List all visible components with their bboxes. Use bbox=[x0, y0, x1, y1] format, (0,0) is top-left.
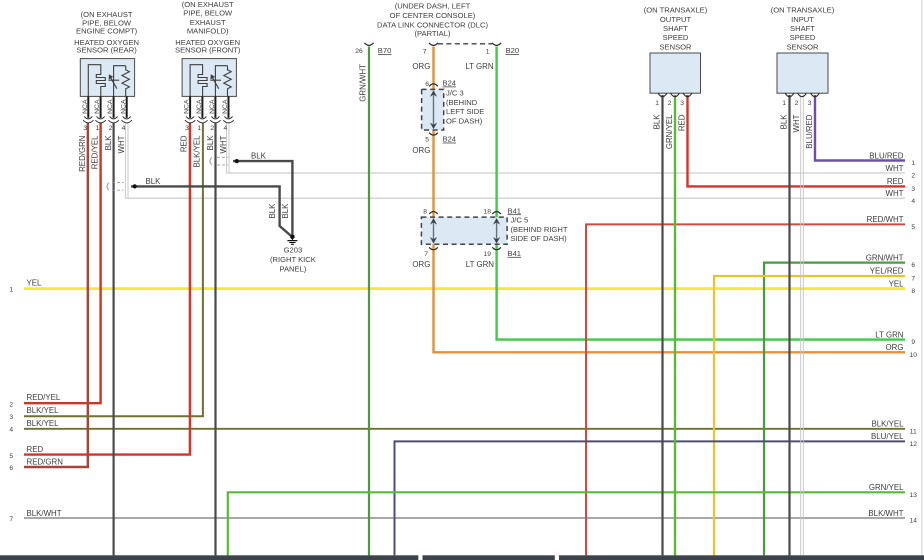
svg-text:RED: RED bbox=[27, 445, 44, 454]
svg-text:6: 6 bbox=[425, 81, 429, 88]
svg-text:WHT: WHT bbox=[117, 135, 126, 153]
component input shaft speed sensor box bbox=[777, 53, 828, 93]
svg-text:WHT: WHT bbox=[219, 135, 228, 153]
wire GRN/WHT row R6 bbox=[764, 263, 905, 556]
svg-text:DATA LINK CONNECTOR (DLC): DATA LINK CONNECTOR (DLC) bbox=[377, 20, 488, 29]
svg-text:WHT: WHT bbox=[792, 114, 801, 132]
svg-text:BLK/YEL: BLK/YEL bbox=[27, 406, 60, 415]
svg-text:7: 7 bbox=[911, 276, 915, 283]
svg-text:6: 6 bbox=[9, 465, 13, 472]
svg-text:B24: B24 bbox=[443, 79, 457, 88]
svg-text:2: 2 bbox=[210, 125, 214, 132]
svg-text:WHT: WHT bbox=[886, 164, 904, 173]
svg-text:BLK/YEL: BLK/YEL bbox=[27, 419, 60, 428]
svg-text:1: 1 bbox=[96, 125, 100, 132]
svg-text:BLU/YEL: BLU/YEL bbox=[871, 432, 904, 441]
svg-text:(BEHIND RIGHT: (BEHIND RIGHT bbox=[511, 225, 568, 234]
svg-text:3: 3 bbox=[9, 414, 13, 421]
svg-text:SENSOR: SENSOR bbox=[659, 42, 692, 51]
svg-text:B24: B24 bbox=[443, 135, 457, 144]
svg-text:BLK: BLK bbox=[146, 177, 162, 186]
svg-text:YEL: YEL bbox=[27, 279, 43, 288]
pin stubs bbox=[88, 96, 126, 118]
svg-text:4: 4 bbox=[911, 198, 915, 205]
svg-text:9: 9 bbox=[911, 339, 915, 346]
svg-text:(PARTIAL): (PARTIAL) bbox=[414, 29, 450, 38]
output sensor wire labels bbox=[653, 114, 687, 149]
svg-text:ORG: ORG bbox=[412, 62, 430, 71]
junction dot front BLK branch bbox=[235, 159, 239, 163]
label heated oxygen sensor (front) title bbox=[175, 0, 241, 55]
svg-text:LT GRN: LT GRN bbox=[875, 330, 904, 339]
DLC pin 26 arc bbox=[364, 43, 373, 46]
variable arrow head bbox=[109, 74, 114, 79]
svg-text:LT GRN: LT GRN bbox=[465, 62, 494, 71]
svg-text:NCA: NCA bbox=[222, 99, 229, 114]
svg-text:YEL: YEL bbox=[889, 279, 905, 288]
wire BLK branch from rear sensor pin2 to ground bbox=[131, 186, 291, 235]
svg-text:LEFT SIDE: LEFT SIDE bbox=[446, 107, 484, 116]
svg-text:BLK: BLK bbox=[780, 114, 789, 130]
svg-text:2: 2 bbox=[911, 173, 915, 180]
svg-text:ORG: ORG bbox=[412, 260, 430, 269]
svg-text:NCA: NCA bbox=[184, 99, 191, 114]
numbers right wire rows 1-14 bbox=[909, 160, 917, 524]
input sensor wire labels bbox=[780, 114, 815, 149]
component output shaft speed sensor box bbox=[650, 53, 701, 93]
junction connector J/C3 box bbox=[422, 89, 444, 130]
svg-text:SENSOR: SENSOR bbox=[786, 42, 819, 51]
svg-text:7: 7 bbox=[424, 251, 428, 258]
wire RED output sensor pin3 to row R3 bbox=[688, 95, 906, 186]
svg-text:PANEL): PANEL) bbox=[279, 264, 306, 273]
J/C5 left arrow bbox=[433, 222, 435, 241]
svg-text:(ON TRANSAXLE): (ON TRANSAXLE) bbox=[771, 6, 835, 15]
svg-text:RED/YEL: RED/YEL bbox=[27, 393, 61, 402]
junction connector J/C5 box bbox=[421, 217, 507, 244]
wire BLK branch from front sensor pin2 to ground bbox=[233, 161, 292, 234]
component heated oxygen sensor (front) box bbox=[182, 59, 236, 123]
wire RED/GRN rear pin3 to row L6 bbox=[24, 123, 88, 468]
svg-text:(BEHIND: (BEHIND bbox=[446, 98, 478, 107]
svg-text:RED/YEL: RED/YEL bbox=[91, 135, 100, 169]
svg-text:3: 3 bbox=[185, 125, 189, 132]
svg-text:BLK: BLK bbox=[268, 203, 277, 219]
svg-text:BLK: BLK bbox=[281, 203, 290, 219]
svg-text:14: 14 bbox=[909, 518, 917, 525]
svg-text:RED/GRN: RED/GRN bbox=[27, 458, 64, 467]
wire color labels front sensor bbox=[180, 135, 228, 168]
svg-text:GRN/YEL: GRN/YEL bbox=[665, 114, 674, 149]
svg-text:OUTPUT: OUTPUT bbox=[660, 15, 692, 24]
J/C5 pin 7 arc bbox=[429, 247, 438, 249]
wire ORG from DLC pin7 through J/C3 and J/C5 to row R10 bbox=[434, 47, 906, 353]
svg-text:2: 2 bbox=[9, 401, 13, 408]
wire GRN/YEL output sensor pin2 vertical bbox=[674, 95, 676, 555]
svg-text:7: 7 bbox=[423, 48, 427, 55]
wire GRN/WHT from DLC pin26 vertical bbox=[368, 47, 370, 556]
wire GRN/YEL row R13 bbox=[228, 492, 905, 555]
page right border bbox=[921, 0, 923, 560]
svg-text:SHAFT: SHAFT bbox=[790, 24, 815, 33]
wire LT GRN from DLC pin1 through J/C5 to row R9 bbox=[497, 47, 905, 340]
svg-text:2: 2 bbox=[795, 100, 799, 107]
wire RED/YEL rear pin1 to row L2 bbox=[24, 123, 101, 404]
variable cell bar bbox=[108, 79, 119, 81]
wire RED front pin3 to row L5 bbox=[24, 123, 190, 455]
svg-text:4: 4 bbox=[9, 427, 13, 434]
junction dot rear BLK branch bbox=[133, 184, 137, 188]
svg-text:BLK/YEL: BLK/YEL bbox=[193, 135, 202, 168]
ground G203 symbol bbox=[287, 235, 297, 245]
svg-text:10: 10 bbox=[909, 352, 917, 359]
svg-text:J/C 5: J/C 5 bbox=[511, 215, 529, 224]
pin numbers front sensor 3 1 2 4 bbox=[185, 125, 227, 132]
connector arcs bbox=[83, 116, 132, 122]
wire BLK/YEL front pin1 to row L3 bbox=[24, 123, 203, 417]
svg-text:26: 26 bbox=[355, 48, 363, 55]
labels NCA front sensor bbox=[184, 99, 229, 114]
svg-text:SPEED: SPEED bbox=[663, 33, 689, 42]
wire WHT row R2 from front sensor pin4 bbox=[226, 123, 229, 174]
svg-text:4: 4 bbox=[223, 125, 227, 132]
label heated oxygen sensor (rear) title bbox=[74, 10, 139, 55]
wire YEL/RED row R7 bbox=[714, 276, 905, 555]
wire BLK/WHT row L7/R14 bbox=[24, 517, 905, 519]
svg-text:BLK: BLK bbox=[206, 135, 215, 151]
svg-text:1: 1 bbox=[486, 48, 490, 55]
svg-text:7: 7 bbox=[9, 516, 13, 523]
svg-text:B70: B70 bbox=[378, 46, 392, 55]
wire BLK input sensor pin1 vertical bbox=[788, 95, 790, 555]
svg-text:RED/WHT: RED/WHT bbox=[867, 215, 904, 224]
svg-text:ENGINE COMPT): ENGINE COMPT) bbox=[76, 27, 138, 36]
svg-text:SHAFT: SHAFT bbox=[663, 24, 688, 33]
wire WHT row R4 from rear sensor pin4 bbox=[125, 123, 128, 199]
svg-text:8: 8 bbox=[911, 288, 915, 295]
DLC pin 7 arc bbox=[429, 43, 438, 46]
label J/C3 name bbox=[446, 89, 484, 126]
J/C5 pin 19 arc bbox=[492, 247, 501, 249]
svg-text:OF DASH): OF DASH) bbox=[446, 116, 483, 125]
svg-text:12: 12 bbox=[909, 441, 917, 448]
svg-text:NCA: NCA bbox=[82, 99, 89, 114]
svg-text:BLK/WHT: BLK/WHT bbox=[27, 509, 62, 518]
wire YEL row L1/R8 bbox=[24, 287, 905, 290]
svg-text:13: 13 bbox=[909, 492, 917, 499]
svg-text:B41: B41 bbox=[508, 206, 522, 215]
label output shaft speed sensor title bbox=[644, 6, 708, 52]
svg-text:1: 1 bbox=[782, 100, 786, 107]
output sensor pin numbers bbox=[655, 100, 684, 107]
svg-text:1: 1 bbox=[9, 286, 13, 293]
inline connector on front BLK branch bbox=[210, 157, 228, 165]
svg-text:BLK/YEL: BLK/YEL bbox=[871, 420, 904, 429]
svg-text:ORG: ORG bbox=[412, 146, 430, 155]
J/C3 pin 6 arc bbox=[429, 84, 438, 86]
svg-text:J/C 3: J/C 3 bbox=[446, 89, 464, 98]
svg-text:ORG: ORG bbox=[886, 343, 904, 352]
svg-text:NCA: NCA bbox=[120, 99, 127, 114]
svg-text:GRN/YEL: GRN/YEL bbox=[869, 483, 904, 492]
svg-text:8: 8 bbox=[423, 208, 427, 215]
svg-text:PIPE, BELOW: PIPE, BELOW bbox=[183, 8, 233, 17]
svg-text:3: 3 bbox=[83, 125, 87, 132]
wire BLU/RED input sensor pin3 to row R1 bbox=[815, 95, 905, 161]
wire BLK output sensor pin1 vertical bbox=[661, 95, 663, 555]
wire RED/WHT row R5 bbox=[586, 224, 905, 555]
svg-text:BLU/RED: BLU/RED bbox=[869, 151, 904, 160]
svg-text:5: 5 bbox=[9, 453, 13, 460]
svg-text:NCA: NCA bbox=[209, 99, 216, 114]
J/C3 pin 5 arc bbox=[429, 133, 438, 135]
svg-text:SPEED: SPEED bbox=[790, 33, 816, 42]
J/C3 arrow bbox=[433, 94, 435, 125]
svg-text:RED/GRN: RED/GRN bbox=[78, 135, 87, 172]
wire BLK/YEL row L4/R11 bbox=[24, 428, 905, 430]
svg-text:5: 5 bbox=[911, 224, 915, 231]
input sensor pin numbers bbox=[782, 100, 812, 107]
svg-text:BLK: BLK bbox=[251, 152, 267, 161]
wire WHT input sensor pin2 vertical bbox=[801, 95, 804, 555]
svg-text:18: 18 bbox=[484, 208, 492, 215]
svg-text:6: 6 bbox=[911, 262, 915, 269]
labels NCA rear sensor bbox=[82, 99, 127, 114]
wire BLU/YEL row R12 bbox=[395, 441, 906, 555]
svg-text:RED: RED bbox=[180, 135, 189, 152]
svg-text:INPUT: INPUT bbox=[791, 15, 814, 24]
svg-text:YEL/RED: YEL/RED bbox=[870, 267, 904, 276]
wire BLK front pin2 vertical bbox=[214, 123, 216, 556]
svg-text:3: 3 bbox=[911, 186, 915, 193]
DLC pin 1 arc bbox=[492, 43, 501, 46]
svg-text:2: 2 bbox=[109, 125, 113, 132]
svg-text:1: 1 bbox=[655, 100, 659, 107]
resistor zigzag bbox=[122, 66, 129, 97]
label input shaft speed sensor title bbox=[771, 6, 835, 52]
svg-text:RED: RED bbox=[678, 114, 687, 131]
svg-text:LT GRN: LT GRN bbox=[466, 260, 495, 269]
variable arrow shaft bbox=[110, 77, 117, 89]
svg-text:OF CENTER CONSOLE): OF CENTER CONSOLE) bbox=[390, 11, 476, 20]
DLC dashed connector line bbox=[438, 43, 492, 45]
J/C5 pin 8 arc bbox=[429, 212, 438, 214]
inline connector on rear BLK branch bbox=[107, 183, 124, 191]
labels right wire rows 1-14 bbox=[866, 151, 904, 518]
svg-text:BLU/RED: BLU/RED bbox=[805, 114, 814, 149]
svg-text:NCA: NCA bbox=[107, 99, 114, 114]
label data link connector title bbox=[377, 2, 488, 39]
svg-text:2: 2 bbox=[668, 100, 672, 107]
J/C5 pin 18 arc bbox=[492, 212, 501, 214]
svg-text:BLK: BLK bbox=[653, 114, 662, 130]
svg-text:11: 11 bbox=[910, 428, 917, 435]
svg-text:19: 19 bbox=[484, 251, 492, 258]
labels left wire rows 1-7 bbox=[27, 279, 64, 518]
sense element lead bbox=[114, 66, 126, 97]
output sensor pin arcs bbox=[658, 93, 692, 97]
numbers left wire rows 1-7 bbox=[9, 286, 13, 523]
svg-text:G203: G203 bbox=[284, 245, 303, 254]
svg-text:GRN/WHT: GRN/WHT bbox=[866, 253, 904, 262]
J/C5 right arrow bbox=[496, 222, 498, 241]
svg-text:4: 4 bbox=[122, 125, 126, 132]
svg-text:NCA: NCA bbox=[196, 99, 203, 114]
heater element bbox=[88, 65, 105, 97]
svg-text:MANIFOLD): MANIFOLD) bbox=[187, 27, 229, 36]
wire BLK rear pin2 vertical bbox=[112, 123, 114, 556]
svg-text:1: 1 bbox=[911, 160, 915, 167]
svg-text:B20: B20 bbox=[506, 46, 520, 55]
svg-text:SENSOR (FRONT): SENSOR (FRONT) bbox=[175, 46, 241, 55]
svg-text:NCA: NCA bbox=[94, 99, 101, 114]
svg-text:(ON TRANSAXLE): (ON TRANSAXLE) bbox=[644, 6, 708, 15]
component heated oxygen sensor (rear) box bbox=[80, 59, 134, 123]
pin numbers rear sensor 3 1 2 4 bbox=[83, 125, 125, 132]
svg-text:WHT: WHT bbox=[886, 189, 904, 198]
svg-text:(RIGHT KICK: (RIGHT KICK bbox=[270, 255, 316, 264]
svg-text:(UNDER DASH, LEFT: (UNDER DASH, LEFT bbox=[395, 2, 471, 11]
svg-text:3: 3 bbox=[808, 100, 812, 107]
svg-text:1: 1 bbox=[197, 125, 201, 132]
input sensor pin arcs bbox=[785, 93, 819, 97]
label J/C5 name bbox=[511, 215, 568, 243]
svg-text:SENSOR (REAR): SENSOR (REAR) bbox=[76, 46, 137, 55]
svg-text:5: 5 bbox=[425, 137, 429, 144]
svg-text:RED: RED bbox=[887, 177, 904, 186]
svg-text:BLK/WHT: BLK/WHT bbox=[868, 509, 903, 518]
svg-text:B41: B41 bbox=[508, 249, 522, 258]
label G203 bbox=[270, 245, 316, 273]
svg-text:BLK: BLK bbox=[104, 135, 113, 151]
wire color labels rear sensor bbox=[78, 135, 126, 172]
svg-text:SIDE OF DASH): SIDE OF DASH) bbox=[511, 234, 568, 243]
svg-text:GRN/WHT: GRN/WHT bbox=[358, 64, 367, 102]
svg-text:3: 3 bbox=[680, 100, 684, 107]
